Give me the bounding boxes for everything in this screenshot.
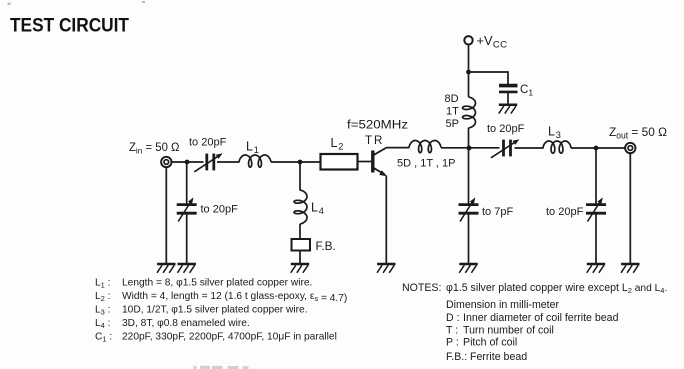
variable capacitor to 20pF (output series) [491,139,519,158]
variable capacitor to 7pF [459,197,479,221]
wire L4 to ferrite bead [299,224,301,239]
wire emitter to ground [385,176,387,264]
svg-text:to 20pF: to 20pF [487,123,525,135]
choke coil 8D 1T 5P [463,97,476,128]
svg-text:3D, 8T, φ0.8 enameled wire.: 3D, 8T, φ0.8 enameled wire. [122,318,250,329]
label 8D 1T 5P [445,93,460,130]
wire node C down to 7pF cap [468,148,470,204]
svg-text:P :: P : [446,337,459,349]
ground output shunt cap [587,264,606,273]
inductor L3 [543,141,571,153]
svg-text:TR: TR [365,135,384,147]
inductor L1 [239,155,271,167]
svg-text:10D, 1/2T, φ1.5 silver plated: 10D, 1/2T, φ1.5 silver plated copper wir… [122,305,308,316]
wire collector to coil [386,147,409,149]
svg-text:Ferrite bead: Ferrite bead [470,351,527,363]
output terminal Zout [625,143,635,153]
svg-text:D :: D : [446,312,460,324]
svg-text:TEST CIRCUIT: TEST CIRCUIT [10,15,129,37]
wire coil to node C and series cap [441,147,500,149]
variable capacitor to 20pF (input series) [194,153,222,172]
input terminal Zin [161,157,171,167]
wire node E down to output shunt cap [595,148,597,204]
wire L1 to L2 [271,161,321,163]
wire output terminal to ground [629,153,631,263]
ground C1 [499,105,518,114]
wire node A down to shunt cap [186,162,188,204]
wire series cap to L1 [217,161,240,163]
svg-text:Dimension in milli-meter: Dimension in milli-meter [446,299,559,311]
node B (L4 junction) [298,160,303,165]
microstrip line L2 [321,154,358,170]
svg-text:φ1.5 silver plated copper wire: φ1.5 silver plated copper wire except L2… [446,282,667,295]
node A (input junction) [185,160,190,165]
scan specks top left [8,1,146,5]
wire input terminal to series cap [172,161,204,163]
svg-text:5P: 5P [446,118,459,130]
svg-text:f=520MHz: f=520MHz [347,120,408,132]
inductor L4 [294,190,307,224]
ground 7pF cap [459,264,478,273]
node E (output junction) [594,146,599,151]
node D (Vcc junction) [466,70,471,75]
wire series cap to L3 [515,147,544,149]
svg-text:F.B.: F.B. [316,239,336,253]
wire node C up to choke [468,128,470,148]
svg-text:NOTES:: NOTES: [402,282,441,294]
svg-text:5D , 1T , 1P: 5D , 1T , 1P [397,158,456,170]
wire ferrite bead to ground [299,251,301,264]
wire node D to C1 [469,72,509,84]
svg-text:Inner diameter of coil ferrite: Inner diameter of coil ferrite bead [463,312,619,324]
svg-text:to 7pF: to 7pF [482,206,513,218]
wire input terminal to ground [165,167,167,263]
capacitor C1 [499,86,518,105]
faint cropped text at bottom edge [194,366,249,369]
svg-text:F.B.:: F.B.: [446,351,467,363]
variable capacitor to 20pF (input shunt) [177,197,197,221]
node C (collector junction) [467,146,472,151]
ground emitter [377,264,396,273]
wire input shunt cap to ground [186,214,188,264]
svg-text:1T: 1T [446,106,459,118]
variable capacitor to 20pF (output shunt) [586,197,606,221]
svg-text:to 20pF: to 20pF [546,206,584,218]
Vcc terminal [464,36,472,44]
svg-text:220pF, 330pF, 2200pF, 4700pF,: 220pF, 330pF, 2200pF, 4700pF, 10μF in pa… [122,332,337,343]
collector coil 5D,1T,1P [409,141,441,153]
wire output shunt cap to ground [595,214,597,264]
wire 7pF cap to ground [468,214,470,264]
wire choke to Vcc terminal [468,45,470,98]
svg-text:T :: T : [446,325,458,337]
svg-text:Turn number of coil: Turn number of coil [463,325,554,337]
svg-text:Pitch of coil: Pitch of coil [463,337,517,349]
notes left column: L1..C1 values [95,278,347,344]
transistor TR [373,148,387,177]
ferrite bead F.B. [292,239,311,251]
wire L3 to output terminal [571,147,625,149]
ground ferrite bead [291,264,310,273]
svg-text:Length = 8, φ1.5 silver plated: Length = 8, φ1.5 silver plated copper wi… [122,278,312,289]
wire L2 to TR base [358,161,372,163]
svg-text:to 20pF: to 20pF [201,204,239,216]
wire node B down to L4 [299,162,301,191]
notes right column [402,282,667,363]
svg-text:to 20pF: to 20pF [189,137,227,149]
ground input shunt cap [177,264,196,273]
ground output terminal [621,264,640,273]
svg-text:8D: 8D [445,93,459,105]
ground input terminal [157,264,176,273]
